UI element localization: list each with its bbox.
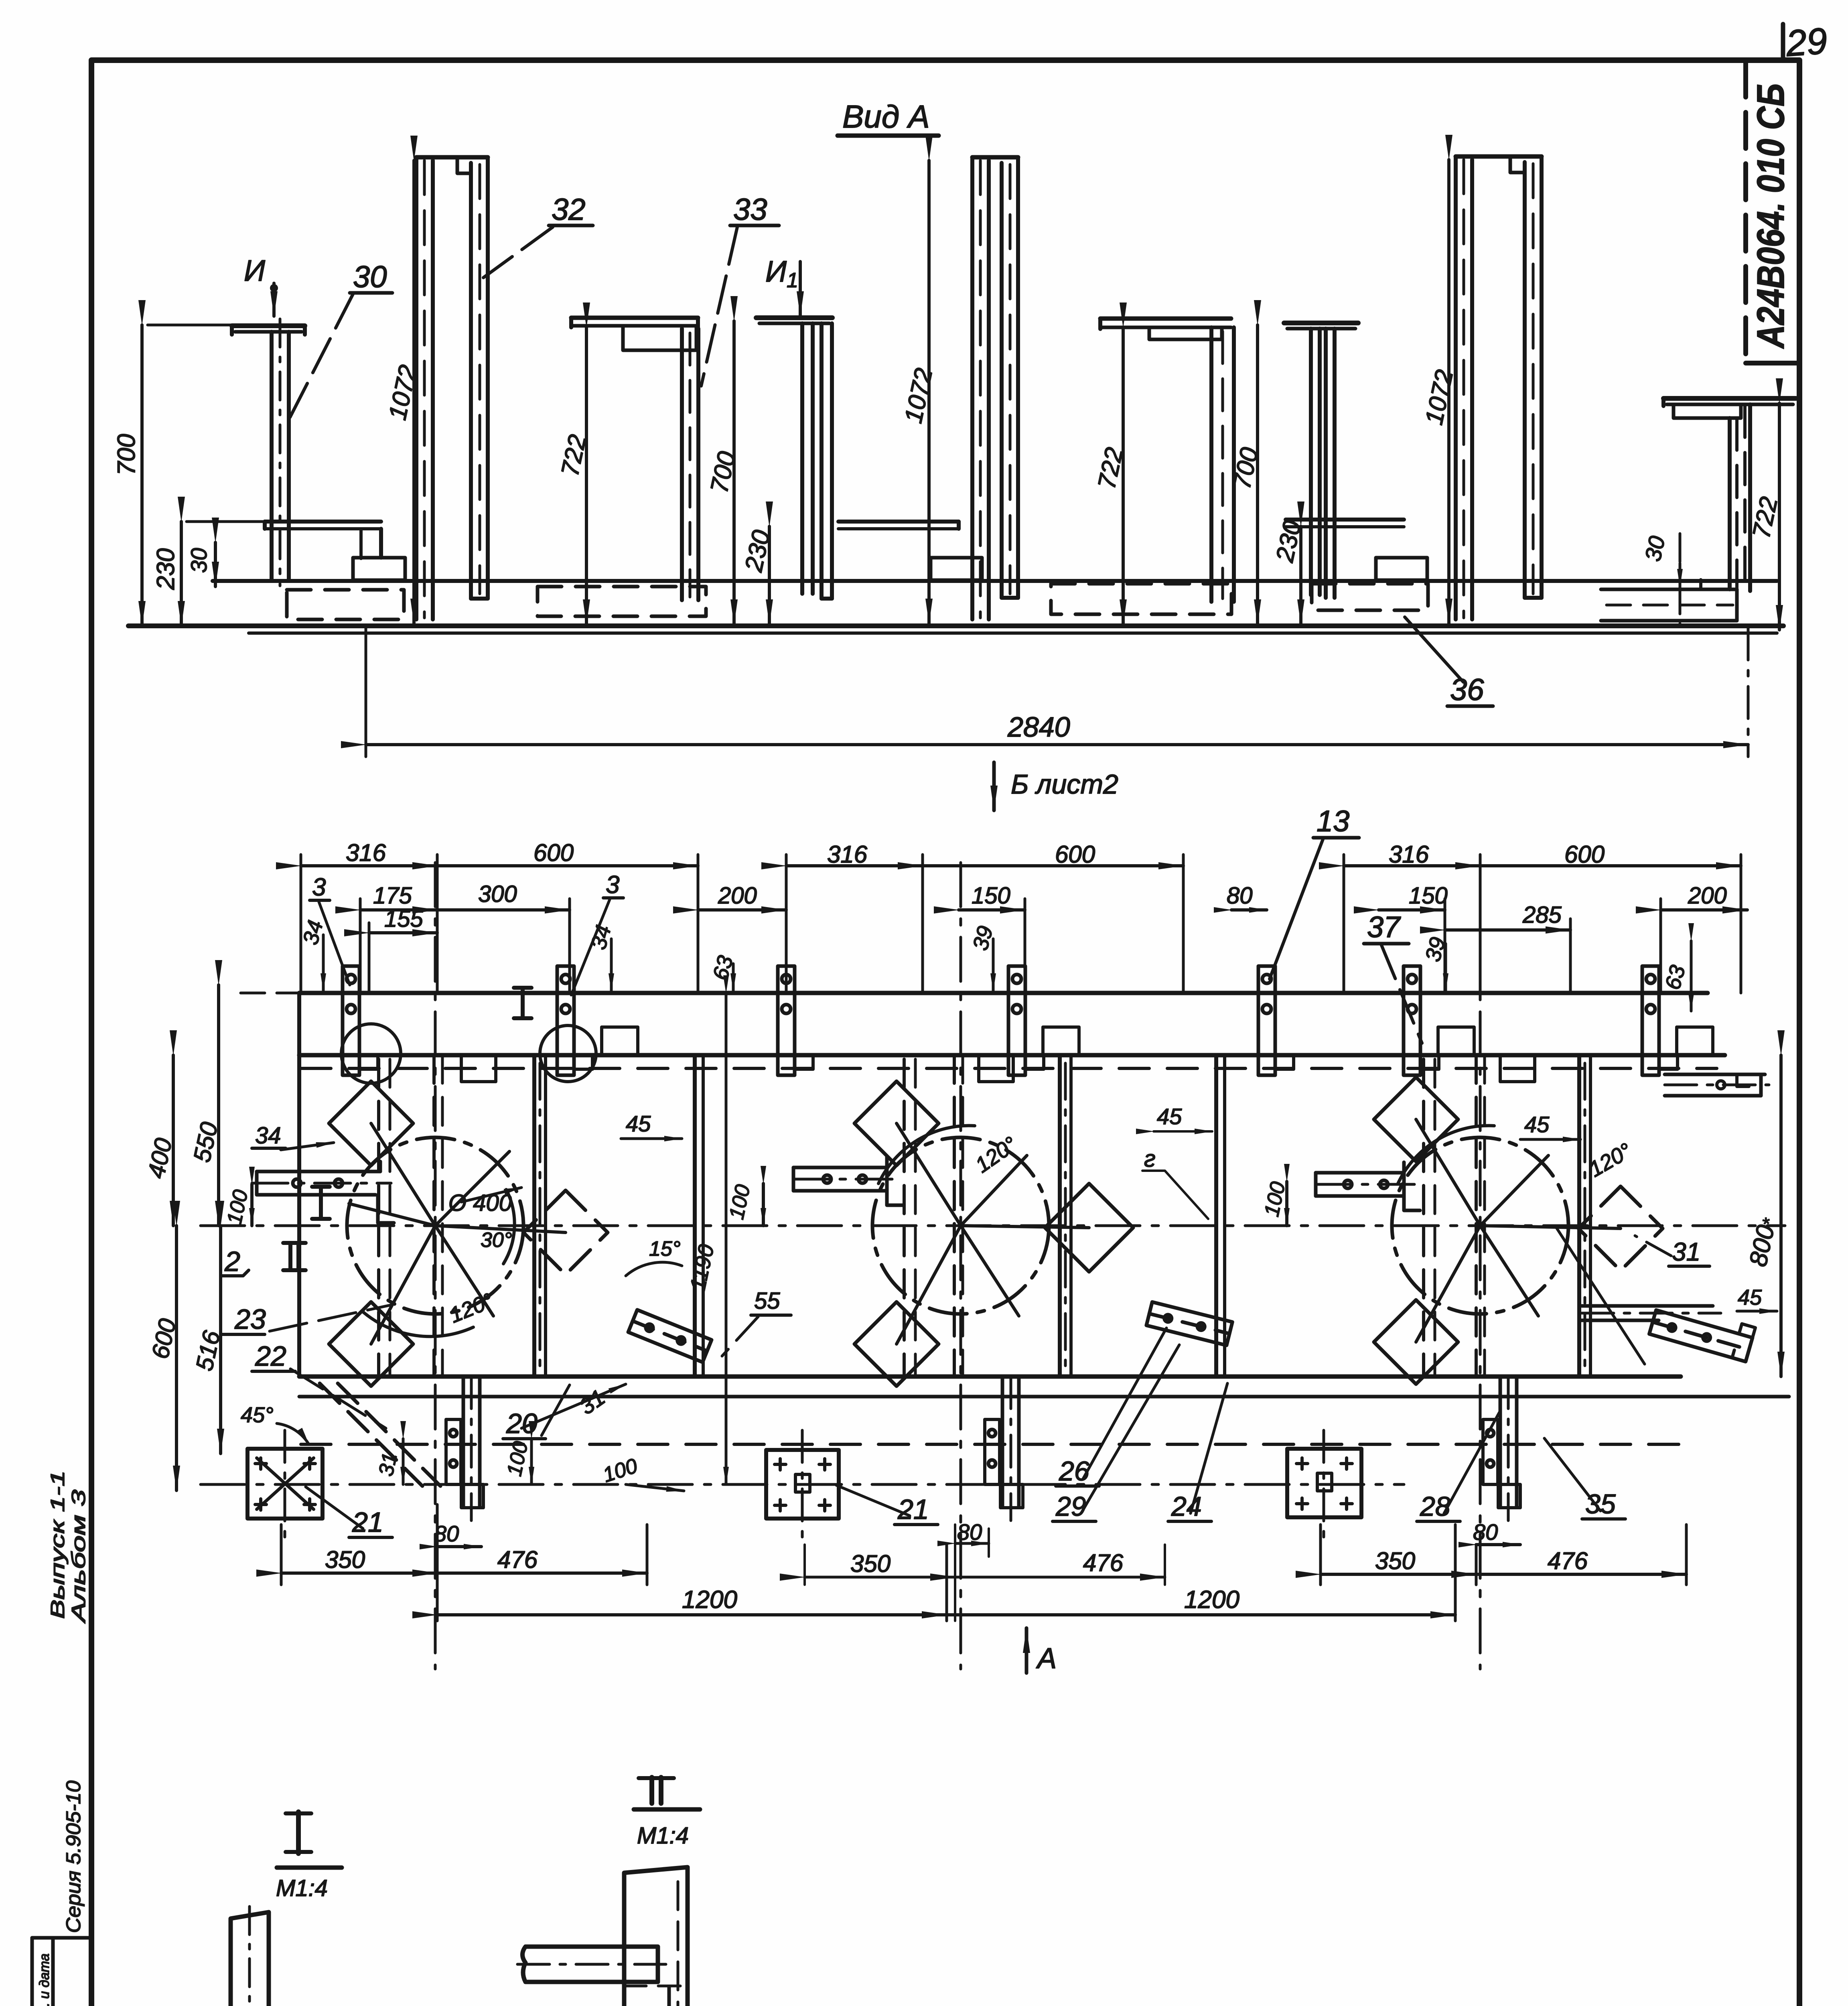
svg-text:316: 316 — [827, 841, 868, 868]
svg-text:700: 700 — [113, 434, 140, 475]
svg-text:13: 13 — [1317, 804, 1349, 838]
svg-text:1190: 1190 — [686, 1242, 719, 1293]
svg-text:2840: 2840 — [1007, 711, 1070, 743]
svg-text:Серия 5.905-10: Серия 5.905-10 — [62, 1781, 85, 1933]
svg-text:37: 37 — [1367, 910, 1401, 944]
svg-text:200: 200 — [1688, 883, 1727, 909]
svg-text:29: 29 — [1055, 1491, 1086, 1522]
svg-text:М1:4: М1:4 — [276, 1875, 328, 1901]
svg-text:И: И — [244, 254, 265, 287]
svg-text:1072: 1072 — [899, 366, 938, 426]
svg-text:80: 80 — [957, 1519, 982, 1545]
svg-text:230: 230 — [152, 548, 180, 590]
svg-text:г: г — [1144, 1146, 1156, 1172]
svg-text:23: 23 — [234, 1303, 266, 1335]
svg-text:722: 722 — [1747, 494, 1783, 541]
svg-text:100: 100 — [725, 1182, 755, 1221]
svg-text:600: 600 — [1055, 841, 1095, 868]
svg-text:31: 31 — [374, 1451, 402, 1478]
svg-text:120°: 120° — [446, 1289, 497, 1328]
svg-text:28: 28 — [1420, 1491, 1450, 1522]
svg-text:35: 35 — [1585, 1489, 1616, 1519]
svg-text:22: 22 — [255, 1340, 286, 1372]
svg-text:15°: 15° — [649, 1237, 681, 1261]
svg-text:30°: 30° — [481, 1228, 512, 1252]
svg-text:80: 80 — [1473, 1519, 1498, 1545]
svg-text:80: 80 — [1227, 883, 1253, 909]
svg-text:Вид А: Вид А — [842, 99, 930, 134]
svg-text:30: 30 — [1640, 534, 1670, 563]
svg-text:34: 34 — [255, 1123, 281, 1149]
svg-text:150: 150 — [1409, 883, 1448, 909]
svg-text:476: 476 — [1548, 1547, 1588, 1574]
svg-text:316: 316 — [1389, 841, 1429, 868]
svg-text:31: 31 — [575, 1384, 610, 1419]
svg-text:1200: 1200 — [1184, 1586, 1239, 1614]
svg-text:285: 285 — [1522, 902, 1562, 928]
svg-text:Альбом 3: Альбом 3 — [68, 1490, 89, 1624]
svg-text:30: 30 — [353, 260, 387, 294]
svg-text:Ø 400: Ø 400 — [448, 1190, 512, 1216]
svg-text:32: 32 — [552, 193, 586, 227]
svg-text:800*: 800* — [1744, 1215, 1781, 1269]
svg-text:600: 600 — [1564, 841, 1605, 868]
svg-text:45: 45 — [626, 1111, 651, 1136]
svg-text:21: 21 — [897, 1494, 929, 1525]
svg-text:1072: 1072 — [1420, 367, 1459, 427]
svg-text:36: 36 — [1450, 673, 1484, 707]
svg-text:И1: И1 — [765, 255, 798, 292]
svg-text:476: 476 — [497, 1546, 538, 1573]
svg-text:63: 63 — [1661, 963, 1690, 993]
svg-text:175: 175 — [373, 883, 412, 909]
svg-text:200: 200 — [718, 883, 757, 909]
svg-text:600: 600 — [534, 839, 574, 866]
svg-text:3: 3 — [606, 871, 619, 899]
svg-text:45: 45 — [1524, 1112, 1550, 1137]
svg-text:150: 150 — [972, 883, 1010, 909]
svg-text:Выпуск 1-1: Выпуск 1-1 — [47, 1470, 69, 1619]
svg-text:А: А — [1036, 1643, 1057, 1675]
svg-text:31: 31 — [1672, 1237, 1700, 1266]
svg-text:100: 100 — [223, 1188, 253, 1226]
svg-text:29: 29 — [1784, 20, 1828, 64]
svg-text:24: 24 — [1171, 1491, 1202, 1522]
svg-text:300: 300 — [478, 881, 517, 907]
svg-text:45: 45 — [1738, 1285, 1762, 1310]
svg-text:2: 2 — [224, 1246, 240, 1277]
svg-text:55: 55 — [754, 1288, 780, 1314]
svg-text:316: 316 — [346, 839, 386, 866]
svg-text:26: 26 — [1059, 1456, 1089, 1486]
svg-text:45: 45 — [1157, 1104, 1182, 1129]
svg-text:А24В064. 010 СБ: А24В064. 010 СБ — [1749, 83, 1792, 349]
svg-text:30: 30 — [186, 548, 211, 573]
svg-text:1200: 1200 — [682, 1586, 737, 1614]
svg-text:33: 33 — [733, 193, 767, 227]
svg-text:100: 100 — [600, 1454, 641, 1487]
svg-text:350: 350 — [850, 1550, 891, 1577]
svg-text:Подп. и дата: Подп. и дата — [37, 1953, 52, 2006]
svg-text:80: 80 — [434, 1521, 459, 1546]
svg-text:Б лист2: Б лист2 — [1011, 769, 1118, 800]
svg-text:476: 476 — [1083, 1549, 1124, 1576]
svg-text:120°: 120° — [1585, 1139, 1636, 1182]
svg-text:350: 350 — [325, 1546, 365, 1573]
svg-text:155: 155 — [384, 906, 424, 932]
svg-text:3: 3 — [312, 873, 326, 901]
svg-text:М1:4: М1:4 — [637, 1823, 689, 1849]
svg-text:45°: 45° — [241, 1403, 274, 1427]
svg-text:350: 350 — [1375, 1547, 1415, 1574]
